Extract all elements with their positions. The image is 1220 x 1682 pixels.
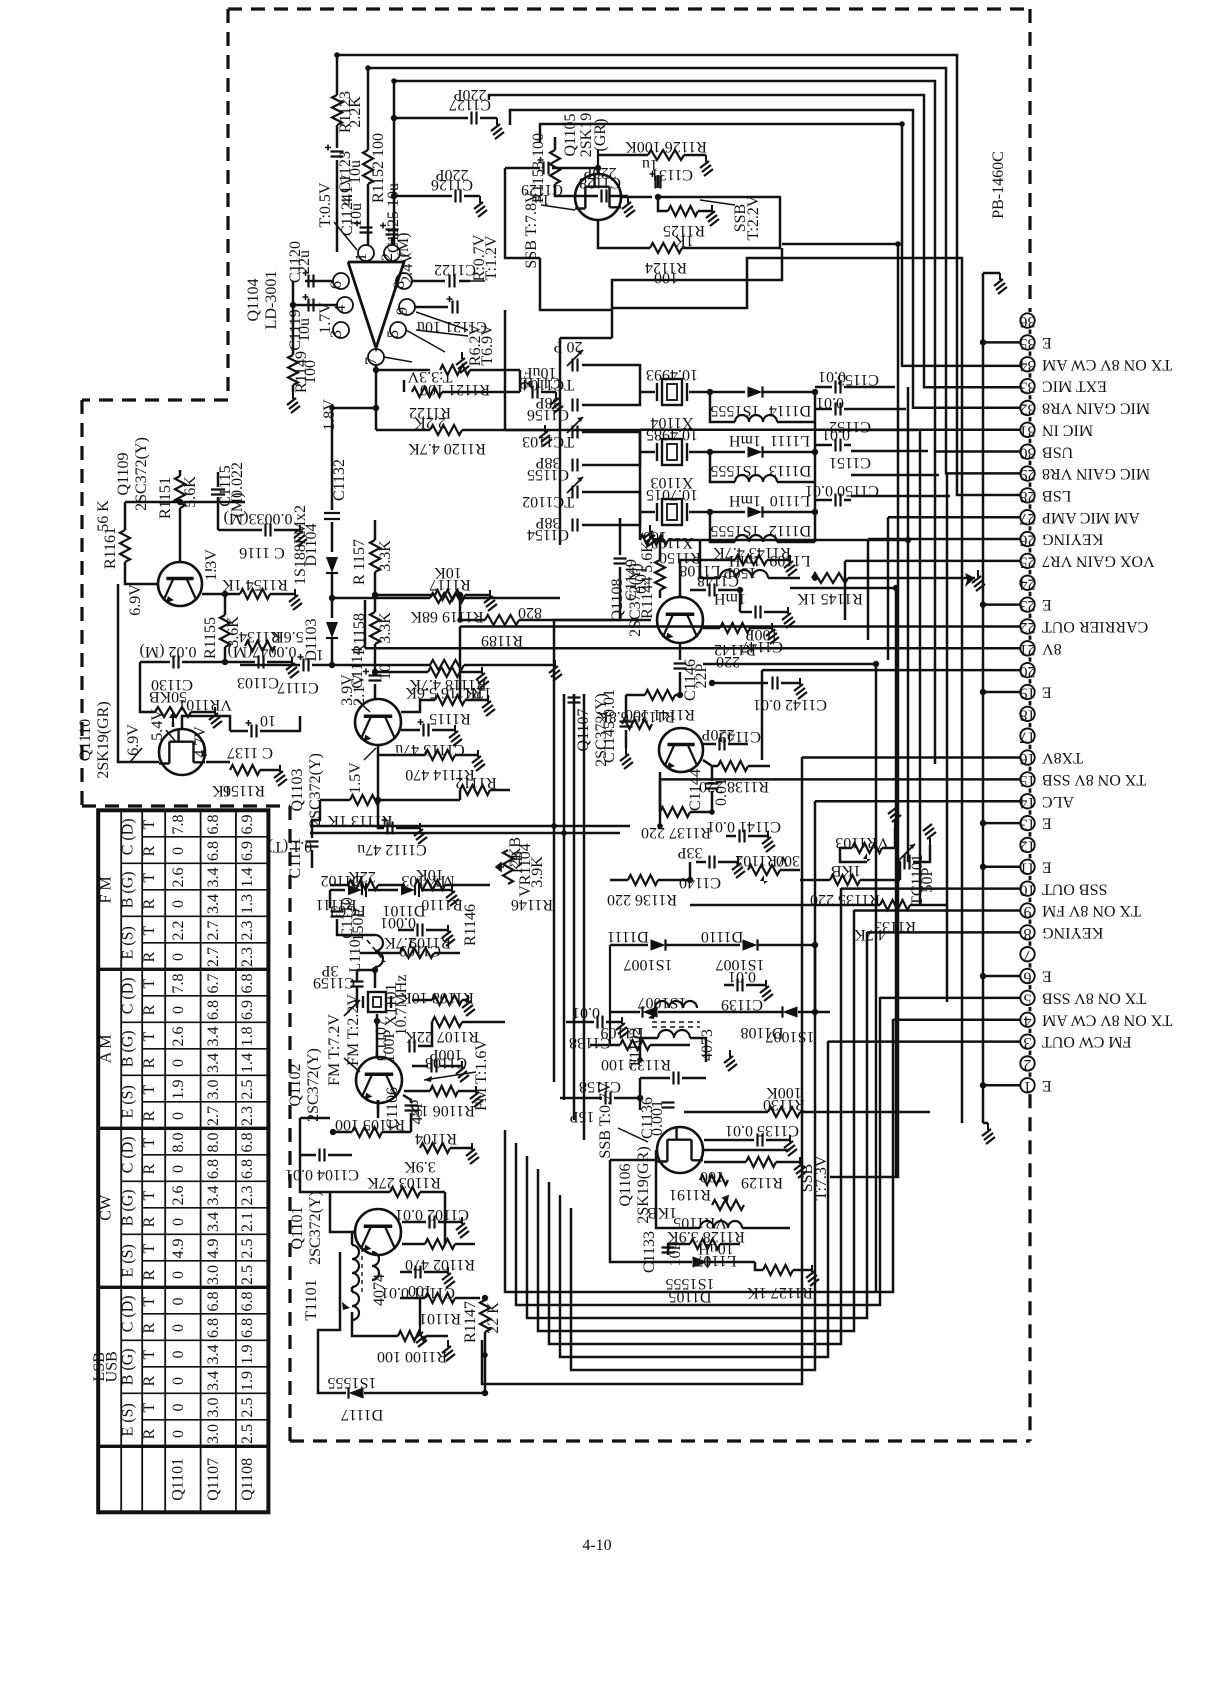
svg-text:R1103 27K: R1103 27K: [367, 1174, 441, 1191]
capacitor C1150 0.01: [836, 494, 841, 507]
svg-text:C 1116: C 1116: [239, 544, 284, 561]
capacitor C1142 0.01: [712, 682, 768, 685]
svg-text:1S1007: 1S1007: [766, 1028, 815, 1045]
svg-text:E (S): E (S): [120, 1244, 137, 1277]
svg-text:2SK19(GR): 2SK19(GR): [95, 701, 112, 778]
resistor R1120 4.7K: [376, 429, 430, 432]
wire crystal filter line 5: [851, 474, 939, 477]
svg-text:C (D): C (D): [120, 1136, 137, 1173]
svg-text:MIC GAIN VR8: MIC GAIN VR8: [1042, 400, 1150, 417]
ground C1101: [442, 1267, 455, 1288]
connector pin 33 (EXT MIC): [1020, 379, 1034, 393]
Q1104 pin 1: [358, 245, 374, 261]
resistor R1151 5.6K: [179, 470, 182, 476]
potentiometer VR1104 2KB: [503, 850, 513, 884]
svg-text:TX ON 8V CW AM: TX ON 8V CW AM: [1042, 356, 1172, 373]
svg-text:C1151: C1151: [829, 454, 871, 471]
svg-text:6.8: 6.8: [205, 1159, 222, 1179]
svg-text:5.4V: 5.4V: [149, 709, 166, 741]
svg-text:1.9: 1.9: [239, 1345, 256, 1365]
resistor R1157 3.3K: [374, 520, 377, 540]
resistor R1152 100: [367, 140, 370, 150]
wire pin 6 to E bus: [983, 975, 1021, 978]
svg-text:2.5: 2.5: [239, 1398, 256, 1418]
wire crystal filter output rail: [814, 392, 817, 542]
svg-text:100: 100: [302, 360, 319, 384]
svg-text:3.4: 3.4: [205, 1345, 222, 1365]
svg-text:6.8: 6.8: [239, 974, 256, 994]
wire center horizontal pair extension: [310, 825, 508, 828]
svg-text:2.6: 2.6: [170, 868, 187, 888]
svg-text:E: E: [1042, 684, 1052, 701]
svg-text:R1110: R1110: [421, 896, 462, 913]
resistor R1125 1K: [658, 196, 672, 199]
capacitor C1138 0.01 with ground: [598, 1016, 603, 1029]
svg-text:T: T: [141, 978, 158, 988]
svg-text:T1102: T1102: [627, 1027, 644, 1068]
svg-text:3.0: 3.0: [205, 1424, 222, 1444]
diode D1117 1S1555: [349, 1387, 364, 1398]
wire Q1109 top rail: [125, 501, 245, 504]
transistor Q1110 2SK19(GR): [159, 729, 205, 775]
capacitor C1152 (0.01): [836, 403, 841, 416]
svg-text:L1111: L1111: [770, 432, 810, 449]
svg-text:C1150 0.01: C1150 0.01: [805, 482, 879, 499]
svg-text:3.3K: 3.3K: [377, 540, 394, 572]
svg-text:E: E: [1042, 815, 1052, 832]
resistor R1128 100: [700, 1175, 728, 1185]
svg-text:1S1555: 1S1555: [328, 1374, 377, 1391]
svg-text:Q1107: Q1107: [205, 1458, 222, 1501]
Q1104 pin 8: [396, 273, 412, 289]
svg-text:100K: 100K: [766, 1084, 802, 1101]
wire pin 5 lead: [880, 997, 1021, 1000]
wire R1150 node to riser: [700, 539, 908, 542]
inductor L1111 1mH: [735, 415, 777, 422]
resistor R1150 100: [640, 535, 668, 545]
svg-text:220P: 220P: [435, 166, 468, 183]
potentiometer VR1105 1KB: [712, 1200, 744, 1210]
svg-text:35: 35: [1020, 335, 1036, 352]
capacitor C1145 0.01: [625, 695, 628, 718]
capacitor C1114 10: [369, 676, 382, 681]
transistor Q1107 2SC372(Y): [659, 728, 703, 772]
svg-text:VR1101: VR1101: [178, 696, 232, 713]
svg-text:2.1: 2.1: [239, 1212, 256, 1232]
svg-text:C1139: C1139: [721, 996, 763, 1013]
wire crystal filter line 4: [851, 450, 928, 453]
capacitor C1148 150P: [710, 584, 715, 597]
inductor L1108 1mH: [700, 540, 720, 578]
svg-text:R1138 220: R1138 220: [699, 778, 769, 795]
svg-text:0.001: 0.001: [649, 1100, 666, 1136]
wire crystal filter line 2: [851, 408, 906, 411]
svg-text:R1146: R1146: [511, 896, 553, 913]
svg-text:T: T: [141, 1190, 158, 1200]
svg-text:3.3K: 3.3K: [377, 612, 394, 644]
wire pin 11 to E bus: [983, 866, 1021, 869]
svg-text:KEYING: KEYING: [1042, 924, 1104, 941]
svg-text:22: 22: [1020, 619, 1036, 636]
svg-text:6.8: 6.8: [205, 1292, 222, 1312]
svg-text:R1145 1K: R1145 1K: [797, 590, 863, 607]
trimmer capacitor TC1103: [573, 426, 578, 439]
svg-text:MIC GAIN VR8: MIC GAIN VR8: [1042, 465, 1150, 482]
crystal X1102 10.7015: [640, 511, 655, 514]
ground for R1125: [706, 205, 719, 226]
svg-text:3.4: 3.4: [205, 868, 222, 888]
wire crystal row rails: [582, 365, 640, 392]
svg-text:8V: 8V: [1042, 640, 1062, 657]
wire crystal filter left rail: [559, 365, 562, 545]
ground R1156: [274, 765, 287, 786]
wire Q1106 source-gate frame: [610, 1160, 660, 1262]
capacitor C1129 1u: [505, 167, 540, 170]
wire Q1107 emitter rail: [689, 862, 692, 880]
svg-text:1.9: 1.9: [170, 1080, 187, 1100]
svg-text:220P: 220P: [701, 726, 734, 743]
capacitor C1135 0.01: [758, 1134, 763, 1147]
svg-text:C1142 0.01: C1142 0.01: [753, 696, 827, 713]
svg-text:3.4: 3.4: [205, 894, 222, 914]
ground C1109: [442, 925, 455, 946]
svg-text:C1140: C1140: [679, 874, 721, 891]
svg-text:R: R: [141, 1004, 158, 1015]
wire from label to pin8: [470, 280, 485, 282]
resistor R1126 100K: [597, 150, 599, 168]
svg-text:USB: USB: [104, 1351, 121, 1382]
svg-text:1: 1: [353, 253, 370, 261]
svg-text:100: 100: [408, 1282, 432, 1299]
Q1104 pin 6: [333, 273, 349, 289]
svg-text:2: 2: [379, 253, 396, 261]
connector pin 19 (E): [1020, 685, 1034, 699]
connector pin 22 (CARRIER OUT): [1020, 619, 1034, 633]
svg-text:0.01: 0.01: [713, 778, 730, 806]
svg-text:R1106 1K: R1106 1K: [409, 1102, 475, 1119]
ground R1116: [476, 667, 489, 688]
svg-text:R1107 22K: R1107 22K: [405, 1028, 479, 1045]
wire R1147 to bottom rail: [484, 1332, 487, 1393]
transistor Q1102 2SC372(Y): [356, 1057, 402, 1103]
svg-text:1u: 1u: [642, 156, 658, 173]
ground for C1118: [550, 392, 563, 413]
trimmer capacitor TC1102: [573, 486, 578, 499]
svg-text:C1117: C1117: [277, 679, 318, 696]
bus wire right vertical A: [782, 244, 898, 1177]
svg-text:3.4: 3.4: [205, 1371, 222, 1391]
wire R1133 rail right: [910, 904, 947, 907]
svg-text:56 K: 56 K: [95, 500, 112, 532]
wire horizontal y588: [790, 587, 896, 590]
wire pin 22 lead (CARRIER OUT): [460, 625, 1021, 628]
resistor R1116 5.6K body: [428, 667, 460, 677]
resistor R1139 6.8K: [622, 719, 652, 729]
svg-text:5: 5: [385, 330, 402, 338]
transistor Q1101 2SC372(Y): [355, 1209, 401, 1255]
svg-text:18: 18: [1020, 706, 1036, 723]
connector pin 1 (E): [1020, 1078, 1034, 1092]
svg-text:R1144 5.6K: R1144 5.6K: [639, 541, 656, 619]
resistor R1119 68K: [332, 597, 430, 600]
resistor R1106 1K: [430, 1086, 458, 1096]
svg-text:4-10: 4-10: [582, 1537, 611, 1554]
resistor R1141 100: [626, 694, 645, 697]
ground for C1128: [622, 196, 635, 217]
svg-text:24: 24: [1020, 575, 1036, 592]
capacitor C1153 0.01: [836, 381, 841, 394]
ground C1112: [414, 823, 427, 844]
bus wire bottom nest 8 (to pin 16): [482, 757, 802, 1384]
capacitor C1112 47u: [388, 822, 393, 835]
transistor Q1109 2SC372(Y): [158, 562, 202, 606]
ground C1102: [456, 1217, 469, 1238]
transistor Q1103 2SC372(Y): [355, 699, 401, 745]
svg-text:15: 15: [1020, 772, 1036, 789]
svg-text:R1191: R1191: [669, 1186, 711, 1203]
capacitor C1136 0.001: [639, 1078, 642, 1110]
junction dots extra: [657, 537, 663, 543]
svg-text:Q1110: Q1110: [77, 719, 94, 761]
ground T1102: [724, 1050, 737, 1071]
svg-text:0: 0: [170, 1218, 187, 1226]
svg-text:1.8: 1.8: [239, 1027, 256, 1047]
svg-text:50P: 50P: [919, 867, 936, 892]
capacitor C1117 47u: [240, 664, 300, 667]
svg-text:7: 7: [1024, 947, 1032, 964]
resistor R1155 3.6K: [220, 615, 230, 647]
svg-text:8: 8: [1024, 925, 1032, 942]
svg-text:13: 13: [1020, 816, 1036, 833]
svg-text:22 K: 22 K: [485, 1302, 502, 1334]
crystal X1104 10.4993: [640, 391, 655, 394]
ground C1145: [620, 748, 633, 769]
ground VR1103: [888, 807, 901, 828]
svg-text:15P: 15P: [569, 1108, 594, 1125]
bus wire mid vertical 4: [583, 694, 586, 1140]
capacitor C1154 38P: [573, 519, 578, 532]
resistor R1149 100: [288, 355, 298, 385]
voltage chart table frame: [98, 810, 268, 1512]
svg-text:5: 5: [1024, 991, 1032, 1008]
ground for R1118: [549, 660, 562, 681]
Q1104 pin 9: [399, 299, 415, 315]
connector pin 8 (KEYING): [1020, 925, 1034, 939]
svg-text:R1155: R1155: [202, 617, 219, 659]
svg-text:D1102: D1102: [321, 872, 364, 889]
capacitor C1116 0.0033(M): [218, 529, 262, 532]
svg-text:R1108 10K: R1108 10K: [400, 989, 474, 1006]
diode D1110 1S1007: [743, 939, 758, 950]
ground R1117: [484, 590, 497, 611]
svg-text:D1110: D1110: [701, 928, 743, 945]
svg-text:E: E: [1042, 858, 1052, 875]
resistor R1147 22K: [480, 1300, 490, 1332]
capacitor C1137 47u: [230, 730, 248, 733]
svg-text:3P: 3P: [321, 962, 338, 979]
svg-text:R1143 4.7K: R1143 4.7K: [713, 544, 791, 561]
svg-text:300: 300: [776, 852, 800, 869]
ground C1116: [294, 525, 307, 546]
svg-text:20 P: 20 P: [553, 338, 582, 355]
svg-text:B (G): B (G): [120, 1030, 137, 1067]
wire MIC IN riser to C1129: [504, 310, 507, 430]
resistor R1115 12K: [435, 695, 465, 705]
svg-text:MY 103: MY 103: [401, 872, 454, 889]
wire pin 35 to E bus: [983, 341, 1021, 344]
wire Q1102 to Q1101 rail: [300, 1117, 330, 1120]
svg-text:100: 100: [700, 1168, 724, 1185]
svg-text:1.4: 1.4: [239, 868, 256, 888]
svg-text:10.7015: 10.7015: [646, 486, 698, 503]
svg-text:3: 3: [1024, 1034, 1032, 1051]
potentiometer VR1101 50KB: [155, 707, 191, 717]
wire pin 1 to E bus: [983, 1084, 1021, 1087]
svg-text:2SC372(Y): 2SC372(Y): [307, 753, 324, 827]
svg-text:USB: USB: [1042, 443, 1073, 460]
diode D1111 1S1007: [610, 944, 648, 947]
svg-text:9: 9: [394, 307, 411, 315]
resistor R1105 100: [333, 1131, 352, 1134]
resistor R1130 100K: [768, 1107, 800, 1117]
svg-text:31: 31: [1020, 422, 1036, 439]
svg-text:1S1007: 1S1007: [624, 956, 673, 973]
connector pin 14 (ALC): [1020, 794, 1034, 808]
wire pin 16 lead: [802, 756, 1021, 759]
capacitor C1147 100P: [756, 606, 761, 619]
svg-text:KEYING: KEYING: [1042, 531, 1104, 548]
svg-text:36: 36: [1020, 313, 1036, 330]
svg-text:CARRIER OUT: CARRIER OUT: [1042, 618, 1148, 635]
resistor R1136 220: [610, 879, 628, 882]
svg-text:2.7: 2.7: [205, 921, 222, 941]
resistor R1110 10K: [415, 880, 445, 890]
connector pin 26 (KEYING): [1020, 532, 1034, 546]
svg-text:C1144: C1144: [687, 769, 704, 811]
resistor R1101 100: [400, 1297, 425, 1300]
svg-text:R1105 100: R1105 100: [335, 1116, 405, 1133]
E ground bus wire: [982, 273, 985, 1085]
wire pin9 node to R1120: [375, 408, 378, 430]
svg-text:2.6: 2.6: [170, 1186, 187, 1206]
svg-text:R1151: R1151: [157, 477, 174, 519]
bus wire vertical F: [919, 430, 922, 905]
resistor R1133 4.7K: [880, 900, 910, 910]
Q1104 pin 3: [333, 322, 349, 338]
svg-text:D1105: D1105: [669, 1288, 712, 1305]
inductor L1101: [375, 935, 383, 967]
svg-text:EXT MIC: EXT MIC: [1042, 378, 1107, 395]
wire Q1105 subcircuit box: [505, 168, 540, 258]
capacitor C1151 0.01: [836, 439, 841, 452]
svg-text:TC1104: TC1104: [522, 376, 574, 393]
svg-text:E: E: [1042, 596, 1052, 613]
diode D1101 MV103 (varactor): [401, 885, 415, 896]
svg-text:R: R: [141, 1163, 158, 1174]
resistor R1144 5.6K: [655, 560, 665, 590]
svg-text:3.9K: 3.9K: [404, 1158, 436, 1175]
svg-text:T: T: [141, 925, 158, 935]
wire pin 19 to E bus: [983, 691, 1021, 694]
svg-text:10.4993: 10.4993: [646, 366, 698, 383]
potentiometer VR1103 1KB: [852, 843, 882, 853]
capacitor C1143 220P: [703, 743, 716, 746]
resistor R1117 10K: [375, 594, 435, 597]
connector pin 3 (FM CW OUT): [1020, 1034, 1034, 1048]
ground for R1149: [292, 385, 295, 392]
resistor R1153 100: [539, 137, 542, 142]
svg-text:0: 0: [170, 953, 187, 961]
wire crystal filter line 1: [851, 386, 895, 389]
svg-text:R1101: R1101: [419, 1310, 461, 1327]
svg-text:C1108: C1108: [425, 1054, 467, 1071]
svg-text:R: R: [141, 1322, 158, 1333]
ground for C1126: [474, 196, 487, 217]
svg-text:2.4V: 2.4V: [399, 252, 416, 284]
svg-text:0.0047(M): 0.0047(M): [228, 643, 297, 660]
ground for R1120: [539, 425, 552, 446]
svg-text:0: 0: [170, 1298, 187, 1306]
svg-text:E: E: [1042, 334, 1052, 351]
capacitor C1108 100P: [432, 1060, 437, 1073]
ground R1127: [806, 1265, 819, 1286]
capacitor C1159 3P: [351, 982, 364, 987]
capacitor C1107 100P: [410, 1040, 415, 1053]
ground D1101: [446, 885, 459, 906]
svg-text:220: 220: [716, 653, 740, 670]
transistor Q1108 2SC372(Y): [657, 597, 703, 643]
svg-text:12: 12: [1020, 838, 1036, 855]
svg-text:6: 6: [1024, 969, 1032, 986]
wire pin 10 lead: [841, 887, 1021, 890]
capacitor C1133 10P: [662, 1248, 675, 1253]
svg-text:28: 28: [1020, 488, 1036, 505]
bus wire bottom nest 2 (to pin 5): [516, 997, 880, 1305]
svg-text:TX8V: TX8V: [1042, 749, 1083, 766]
svg-text:2.7: 2.7: [205, 1106, 222, 1126]
svg-text:R: R: [141, 951, 158, 962]
capacitor C1103 0.0047(M): [225, 661, 255, 664]
connector pin 4 (TX ON 8V CW AM): [1020, 1013, 1034, 1027]
capacitor C1124 10u (pin1): [360, 228, 373, 233]
ground C1140: [732, 857, 745, 878]
wire pin 26 lead (KEYING): [868, 538, 1021, 541]
wire pin 9 lead: [854, 909, 1021, 912]
svg-text:1KB: 1KB: [831, 862, 861, 879]
connector pin 13 (E): [1020, 816, 1034, 830]
wire Q1102 emitter down: [377, 1100, 380, 1118]
connector pin 12: [1020, 838, 1034, 852]
svg-text:R 1157: R 1157: [351, 539, 368, 585]
svg-text:7.8: 7.8: [170, 815, 187, 835]
connector pin 25 (VOX GAIN VR7): [1020, 554, 1034, 568]
svg-text:10: 10: [260, 712, 276, 729]
svg-text:25: 25: [1020, 554, 1036, 571]
svg-text:R1128 3.9K: R1128 3.9K: [667, 1228, 745, 1245]
capacitor C1149 0.01: [619, 518, 622, 555]
svg-text:FM CW OUT: FM CW OUT: [1042, 1033, 1132, 1050]
svg-text:100: 100: [654, 269, 678, 286]
svg-text:0.01: 0.01: [822, 426, 850, 443]
svg-text:6.8: 6.8: [205, 1318, 222, 1338]
resistor R1142 220: [703, 627, 720, 630]
svg-text:19: 19: [1020, 685, 1036, 702]
capacitor C1106 45P: [405, 1106, 418, 1111]
svg-text:T: T: [141, 1349, 158, 1359]
connector pin 5 (TX ON 8V SSB): [1020, 991, 1034, 1005]
svg-text:7: 7: [363, 357, 380, 365]
svg-text:11: 11: [1020, 859, 1035, 876]
